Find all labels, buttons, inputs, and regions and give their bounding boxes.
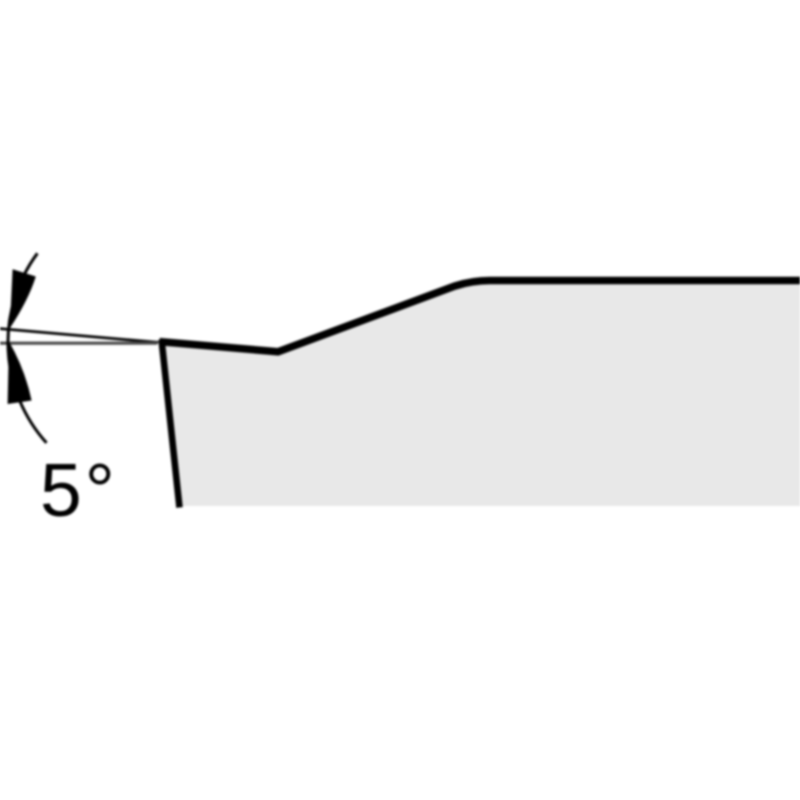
insert front edge outline <box>162 340 180 508</box>
5-degree sloped reference line <box>0 329 158 343</box>
lower arrowhead <box>8 342 32 405</box>
insert body fill <box>161 281 800 507</box>
dimension arc <box>8 253 47 443</box>
insert top edge outline <box>160 281 800 352</box>
horizontal reference line <box>0 342 157 345</box>
svg-text:5°: 5° <box>40 448 118 532</box>
upper arrowhead <box>10 269 36 328</box>
